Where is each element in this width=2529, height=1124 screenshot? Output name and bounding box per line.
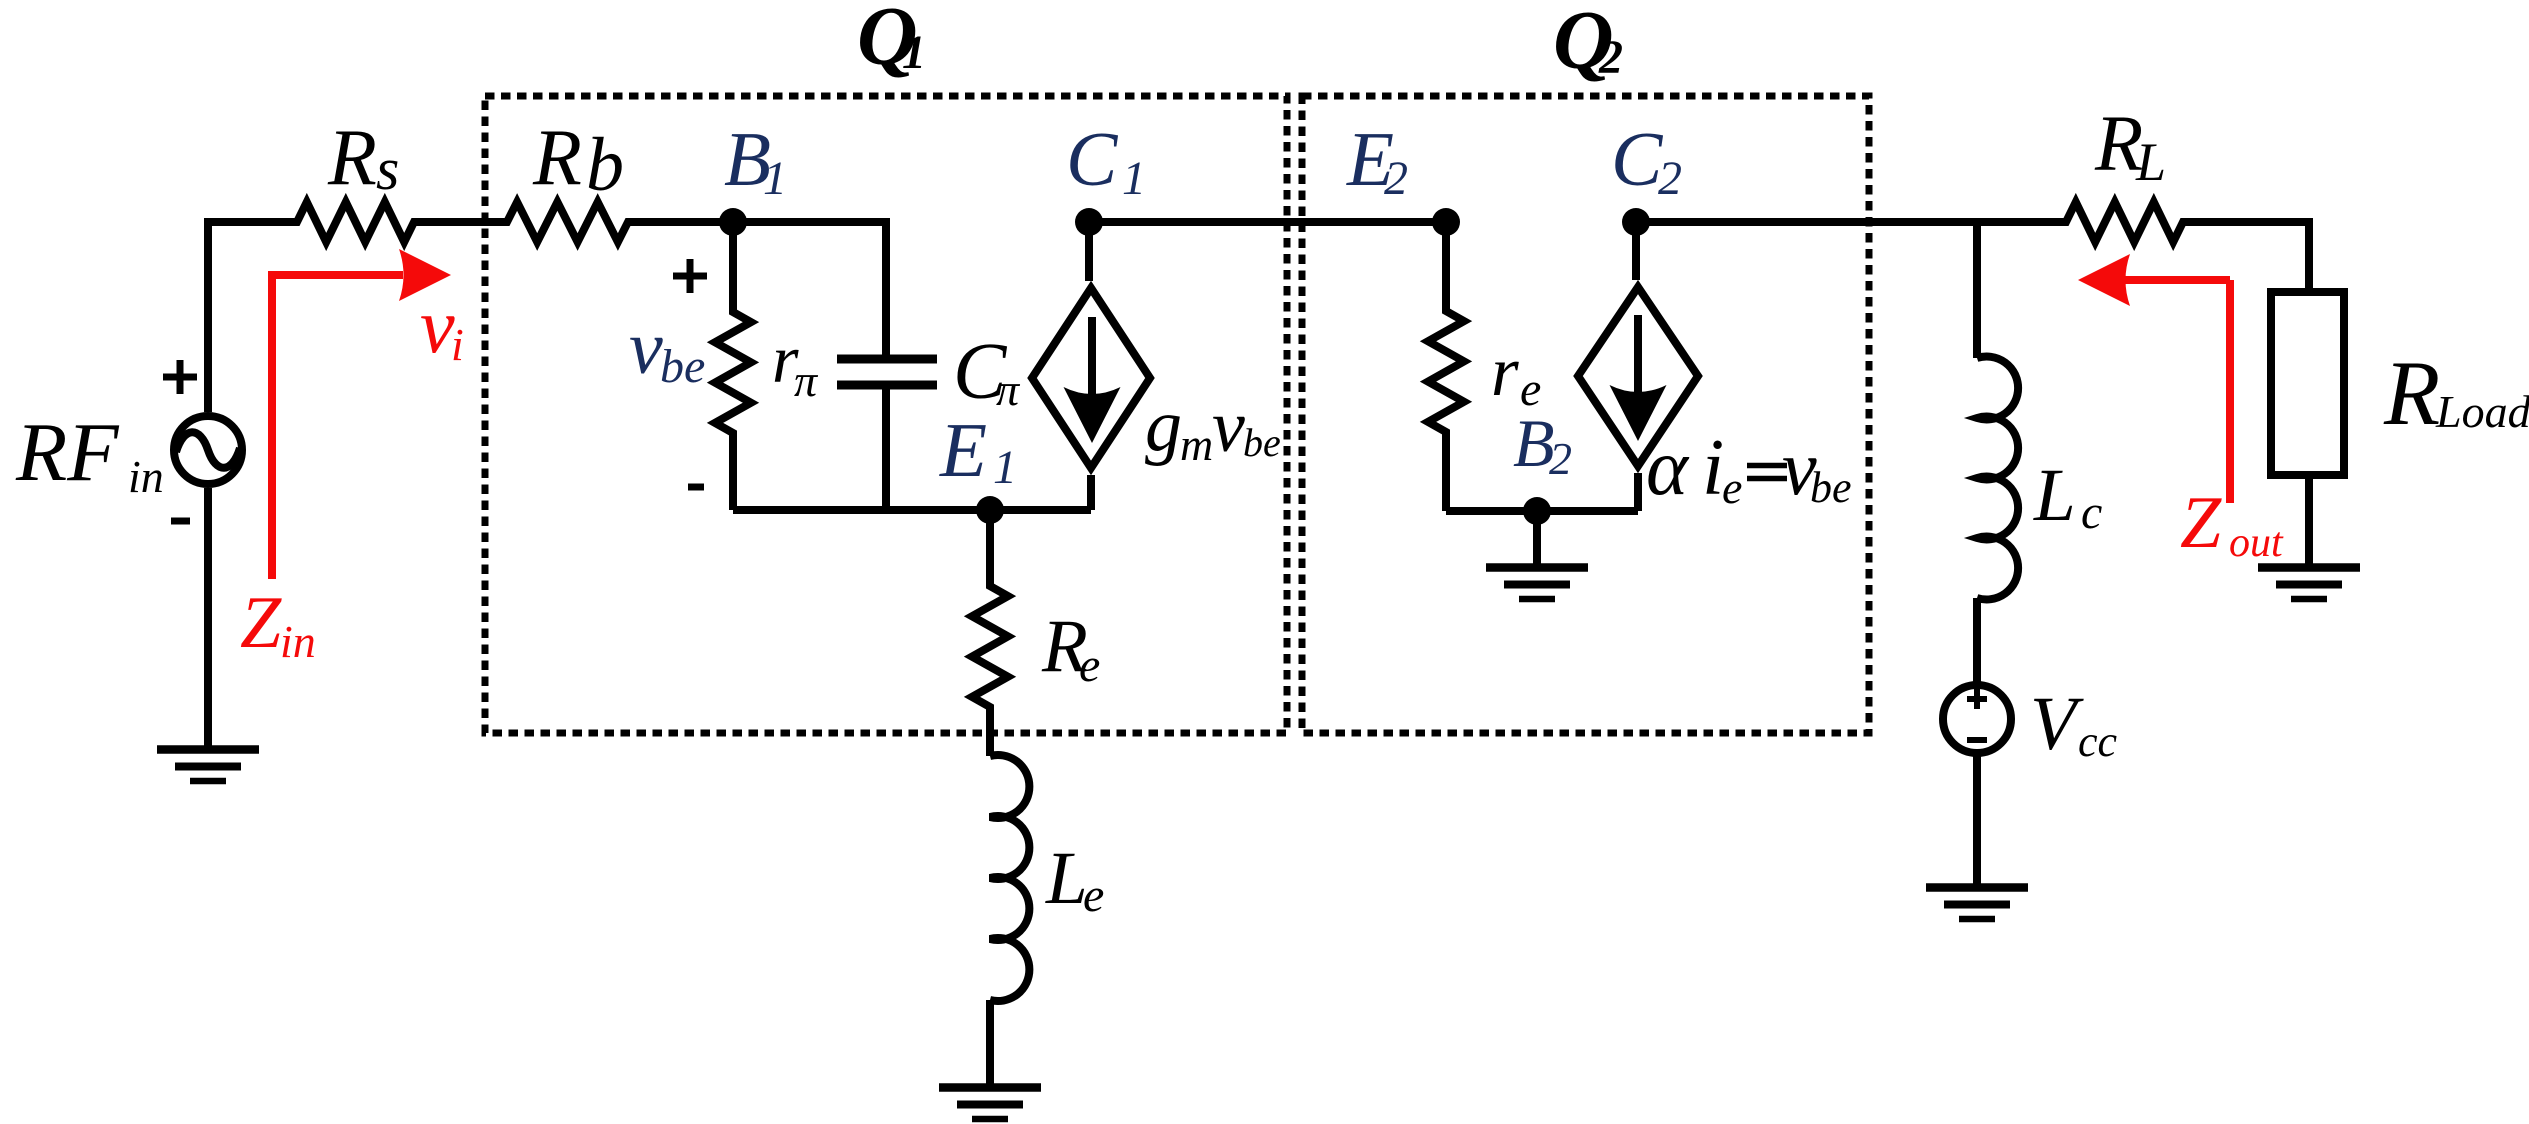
svg-text:L: L (1045, 837, 1088, 920)
svg-text:Load: Load (2435, 386, 2529, 437)
svg-text:e: e (1083, 869, 1104, 922)
svg-text:v: v (629, 306, 663, 390)
svg-text:R: R (2383, 342, 2440, 444)
svg-text:C: C (1066, 116, 1119, 202)
svg-text:1: 1 (993, 441, 1017, 494)
svg-text:out: out (2229, 520, 2284, 566)
svg-text:r: r (1491, 333, 1519, 411)
svg-text:RF: RF (15, 406, 120, 499)
svg-text:Z: Z (240, 582, 282, 664)
svg-text:C: C (1611, 116, 1664, 202)
svg-text:e: e (1722, 462, 1742, 513)
svg-text:v: v (1212, 386, 1245, 468)
svg-text:b: b (586, 123, 624, 207)
svg-text:L: L (2033, 454, 2076, 537)
svg-text:g: g (1145, 385, 1182, 467)
svg-text:Z: Z (2180, 482, 2222, 564)
svg-text:R: R (327, 114, 377, 202)
svg-text:α: α (1646, 424, 1690, 512)
svg-text:R: R (532, 114, 582, 202)
svg-text:e: e (1079, 639, 1100, 692)
svg-text:in: in (280, 616, 316, 667)
svg-text:v: v (420, 282, 455, 369)
svg-text:c: c (2081, 486, 2102, 539)
svg-text:V: V (2030, 682, 2084, 766)
svg-text:2: 2 (1598, 31, 1623, 84)
svg-text:1: 1 (902, 26, 926, 79)
svg-text:π: π (996, 364, 1021, 415)
svg-text:E: E (939, 407, 987, 493)
svg-text:i: i (451, 319, 464, 370)
svg-text:2: 2 (1549, 433, 1572, 484)
svg-text:i: i (1702, 424, 1724, 512)
svg-text:1: 1 (1122, 152, 1146, 205)
svg-text:be: be (660, 340, 705, 393)
svg-text:L: L (2135, 132, 2166, 192)
svg-text:2: 2 (1384, 152, 1408, 205)
svg-text:cc: cc (2078, 717, 2118, 766)
svg-text:1: 1 (763, 152, 787, 205)
svg-text:π: π (794, 355, 819, 406)
svg-text:m: m (1180, 419, 1213, 470)
svg-text:in: in (128, 451, 164, 502)
svg-text:2: 2 (1658, 152, 1682, 205)
svg-text:s: s (376, 136, 399, 202)
svg-text:be: be (1810, 463, 1852, 512)
svg-text:be: be (1243, 420, 1281, 465)
